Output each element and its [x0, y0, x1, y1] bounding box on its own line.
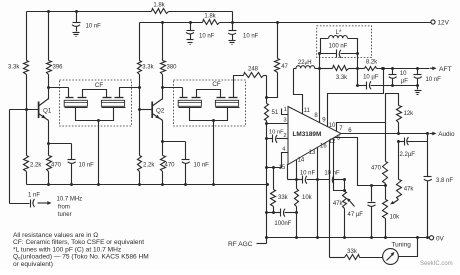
- svg-text:8.2k: 8.2k: [366, 59, 378, 65]
- wire pin1 stub: [282, 109, 289, 115]
- label 1.8k (lower): [204, 14, 216, 20]
- pin label 14: [298, 158, 305, 164]
- svg-text:or equivalent): or equivalent): [13, 261, 53, 268]
- svg-text:33k: 33k: [278, 195, 289, 201]
- capacitor 10nF pin2: [267, 135, 289, 143]
- label 3.8 nF: [436, 178, 453, 184]
- wire V1 bus: [265, 76, 268, 244]
- label Q1: [43, 107, 52, 114]
- svg-text:100nF: 100nF: [274, 221, 291, 227]
- wire RF AGC: [257, 243, 267, 245]
- svg-text:10 nF: 10 nF: [269, 129, 284, 135]
- wire pin11 riser: [294, 69, 303, 114]
- wire CF1 bottom: [76, 108, 114, 121]
- wiper arrow 47k: [347, 198, 355, 206]
- svg-text:16: 16: [320, 143, 327, 149]
- resistor 10k pin14: [295, 189, 299, 207]
- resistor 2.2k stage2 bias lower: [138, 110, 142, 187]
- label RF AGC: [228, 241, 253, 248]
- resistor 3.3k detector: [320, 66, 358, 71]
- capacitor 10nF AFT: [414, 69, 422, 95]
- svg-text:10 nF: 10 nF: [86, 24, 102, 30]
- wire CF1 input lead: [68, 88, 70, 98]
- svg-text:RF AGC: RF AGC: [228, 241, 253, 248]
- node CF1 ground: [97, 119, 100, 185]
- watermark SeekIC.com: [420, 261, 453, 267]
- wire top supply rail upper: [27, 11, 233, 13]
- potentiometer 47k: [343, 180, 347, 240]
- label 47 uF: [348, 212, 364, 218]
- resistor 8.2k: [358, 67, 430, 71]
- svg-text:10: 10: [329, 123, 336, 129]
- svg-text:0V: 0V: [436, 236, 445, 243]
- svg-text:470: 470: [165, 163, 176, 169]
- resistor 396 collector load: [47, 10, 52, 100]
- terminal 0V: [429, 236, 444, 243]
- capacitor 10nF stage1 emitter: [49, 144, 76, 185]
- wire pin3 stub: [267, 123, 289, 125]
- capacitor 10nF decoupling 2: [186, 21, 195, 45]
- svg-text:10 nF: 10 nF: [194, 163, 210, 169]
- wire input arrow 10.7 MHz: [38, 201, 52, 205]
- op-amp U1 LM3189M: [288, 107, 341, 165]
- capacitor 47uF: [368, 186, 376, 240]
- label 10 uF AFT: [400, 71, 408, 84]
- svg-text:33k: 33k: [347, 249, 358, 255]
- label 10 nF (decoupling 2): [199, 33, 215, 39]
- label 51: [272, 110, 279, 116]
- svg-text:100 nF: 100 nF: [329, 44, 348, 50]
- svg-text:LM3189M: LM3189M: [293, 131, 322, 138]
- label 470 pin6: [371, 166, 382, 172]
- wire pin9 riser: [328, 67, 386, 127]
- svg-text:µF: µF: [401, 79, 408, 85]
- svg-text:AFT: AFT: [439, 66, 452, 73]
- wire CF1 output lead: [120, 88, 140, 98]
- resistor 470 stage2 emitter: [161, 142, 166, 185]
- label 33k pin4: [278, 195, 289, 201]
- resistor R 1.8k (lower): [203, 20, 220, 25]
- capacitor 10nF decoupling 1: [72, 10, 81, 37]
- pin label 6: [348, 128, 352, 134]
- resistor 47k pin12: [397, 142, 402, 200]
- label 3.3k detector: [336, 75, 348, 81]
- svg-text:11: 11: [304, 108, 311, 114]
- svg-text:47: 47: [281, 64, 288, 70]
- svg-text:2.2k: 2.2k: [30, 163, 42, 169]
- wire Q2 emitter: [161, 121, 164, 144]
- resistor 248: [244, 73, 267, 78]
- svg-text:CF: Ceramic filters, Toko CSFE: CF: Ceramic filters, Toko CSFE or equiva…: [13, 239, 144, 246]
- label 3.3k stage1: [8, 64, 20, 70]
- label 3.3k stage2: [142, 64, 154, 70]
- label 380: [167, 64, 178, 70]
- wire pin14 riser: [295, 160, 298, 240]
- capacitor 1 nF input: [31, 199, 35, 208]
- svg-text:CF: CF: [95, 82, 103, 89]
- wire pin5 net: [335, 138, 388, 188]
- svg-text:13: 13: [309, 150, 316, 156]
- wire 12V supply rail: [140, 22, 431, 24]
- svg-text:from: from: [58, 204, 70, 210]
- svg-text:248: 248: [248, 66, 259, 72]
- wire pin15 riser: [288, 165, 289, 180]
- ceramic filter CF2 dashed box: [174, 80, 246, 126]
- label Tuning: [392, 242, 412, 249]
- wire Q2 collector node: [161, 86, 183, 89]
- label 47k pot: [333, 201, 344, 207]
- label 470 stage2: [165, 163, 176, 169]
- svg-text:All resistance values are in Ω: All resistance values are in Ω: [13, 232, 98, 239]
- label 10 nF AFT: [426, 77, 442, 83]
- label 47: [281, 64, 288, 70]
- svg-text:tuner: tuner: [58, 212, 72, 218]
- svg-text:47 µF: 47 µF: [348, 212, 364, 218]
- label 248: [248, 66, 259, 72]
- label 2.2uF: [400, 152, 416, 158]
- pin label 2: [283, 133, 286, 139]
- svg-text:47k: 47k: [404, 187, 415, 193]
- label 2.2k stage1: [30, 163, 42, 169]
- wire pin10 net: [337, 123, 386, 132]
- pin label 10: [329, 123, 336, 129]
- label 1.8k (upper): [153, 3, 165, 9]
- pin label 1: [284, 107, 287, 113]
- transistor Q1: [39, 99, 49, 121]
- resistor 33k pin4: [271, 166, 276, 214]
- pin label 16: [320, 143, 327, 149]
- label 12k: [404, 111, 415, 117]
- capacitor 10nF pin13 a: [288, 176, 330, 184]
- wire pin16 riser: [329, 141, 331, 258]
- svg-text:Audio: Audio: [438, 131, 455, 138]
- node CF2 ground: [212, 119, 215, 186]
- label 2.2k stage2: [143, 163, 155, 169]
- svg-text:3.8 nF: 3.8 nF: [436, 178, 453, 184]
- label 470 stage1: [51, 163, 62, 169]
- wire pin13 riser: [316, 148, 319, 240]
- pin label 11: [304, 108, 311, 114]
- svg-text:SeekIC.com: SeekIC.com: [420, 261, 453, 267]
- resistor 51: [265, 104, 269, 121]
- svg-text:10 nF: 10 nF: [199, 33, 215, 39]
- label 10 nF pin2: [269, 129, 284, 135]
- wire CF2 input lead: [182, 88, 184, 98]
- terminal AFT: [430, 66, 452, 73]
- label 100nF: [274, 221, 291, 227]
- resistor 2.2k stage1 bias lower: [24, 110, 29, 185]
- svg-text:51: 51: [272, 110, 279, 116]
- svg-text:470: 470: [51, 163, 62, 169]
- label 8.2k: [366, 59, 378, 65]
- resistor 33k tuning: [330, 255, 383, 260]
- svg-text:Q1: Q1: [43, 107, 52, 114]
- potentiometer 10k: [383, 186, 388, 240]
- svg-text:15: 15: [279, 165, 286, 171]
- wire input drop: [10, 110, 30, 204]
- terminal 12V: [431, 20, 450, 27]
- svg-text:3: 3: [283, 118, 286, 124]
- capacitor 10nF decoupling 3: [228, 23, 237, 45]
- pin label 12: [329, 139, 336, 145]
- svg-text:3.3k: 3.3k: [142, 64, 154, 70]
- wire tank to detector rail: [356, 54, 359, 71]
- label 10 nF (b): [324, 170, 340, 176]
- pin label 15: [279, 165, 286, 171]
- pin label 8: [314, 113, 318, 119]
- svg-text:1.8k: 1.8k: [204, 14, 216, 20]
- wire CF2 coupling: [197, 90, 221, 98]
- wire pin8 riser: [318, 52, 321, 123]
- svg-text:1 nF: 1 nF: [28, 192, 40, 198]
- wire CF2 output lead: [234, 76, 244, 98]
- svg-text:396: 396: [53, 64, 64, 70]
- wire CF2 bottom: [190, 108, 228, 121]
- inductor 22uH: [294, 66, 320, 69]
- svg-text:10: 10: [400, 71, 407, 77]
- svg-text:10 nF: 10 nF: [324, 170, 340, 176]
- filter element CF1a: [64, 98, 87, 108]
- wire pin10 to 12k: [386, 94, 399, 123]
- pin label 9: [322, 117, 326, 123]
- svg-text:1.8k: 1.8k: [153, 3, 165, 9]
- pin label 5: [337, 135, 341, 141]
- wire audio output: [342, 132, 430, 135]
- label 10k pin14: [302, 195, 313, 201]
- terminal Audio: [430, 131, 455, 138]
- svg-text:Qo(unloaded) — 75 (Toko No. KA: Qo(unloaded) — 75 (Toko No. KACS K586 HM: [13, 254, 149, 261]
- svg-text:380: 380: [167, 64, 178, 70]
- wire rail connector: [231, 12, 234, 25]
- wire stage ground rail: [27, 183, 270, 186]
- filter element CF2b: [215, 98, 239, 108]
- svg-text:1: 1: [284, 107, 287, 113]
- svg-text:3.3k: 3.3k: [336, 75, 348, 81]
- label 10 nF (a): [300, 170, 316, 176]
- label 10 nF (decoupling 1): [86, 24, 102, 30]
- wire CF1 coupling: [83, 90, 107, 98]
- ceramic filter CF1 dashed box: [60, 80, 132, 126]
- resistor 3.3k stage1 bias upper: [24, 12, 29, 112]
- svg-text:*L tunes with 100 pF (C) at 10: *L tunes with 100 pF (C) at 10.7 MHz: [13, 246, 121, 253]
- svg-text:12V: 12V: [438, 20, 450, 27]
- label 33k tuning: [347, 249, 358, 255]
- wire 0V rail: [267, 236, 430, 239]
- resistor 470 stage1 emitter: [47, 144, 52, 185]
- wire Q2 base: [140, 109, 153, 111]
- svg-text:10k: 10k: [390, 215, 401, 221]
- pin label 7: [339, 126, 343, 132]
- label 10.7 MHz from tuner: [57, 197, 83, 218]
- svg-text:Tuning: Tuning: [392, 242, 412, 249]
- svg-text:10 nF: 10 nF: [79, 163, 95, 169]
- inductor L: [321, 35, 358, 53]
- svg-text:3.3k: 3.3k: [8, 64, 20, 70]
- label 10 uF coupling: [363, 74, 379, 80]
- svg-text:47k: 47k: [333, 201, 344, 207]
- meter M tuning: [383, 249, 399, 265]
- svg-text:10 nF: 10 nF: [243, 33, 259, 39]
- label CF (filter 1): [95, 82, 103, 89]
- resistor 3.3k stage2 bias upper: [138, 23, 142, 112]
- wire pin4 stub: [267, 153, 289, 168]
- svg-text:Q2: Q2: [156, 107, 165, 114]
- note text: [13, 232, 149, 268]
- capacitor 10uF AFT: [389, 69, 397, 86]
- label 10 nF stage2 emitter: [194, 163, 210, 169]
- wire meter to 0V: [399, 238, 418, 257]
- svg-text:2.2k: 2.2k: [143, 163, 155, 169]
- pin label 4: [282, 147, 286, 153]
- pin label 13: [309, 150, 316, 156]
- label LM3189M: [293, 131, 322, 138]
- label 10 nF (decoupling 3): [243, 33, 259, 39]
- svg-text:2: 2: [283, 133, 286, 139]
- svg-text:CF: CF: [212, 81, 220, 88]
- capacitor 10nF pin13 b: [330, 176, 347, 184]
- svg-text:10 nF: 10 nF: [300, 170, 316, 176]
- label 396: [53, 64, 64, 70]
- wiper arrow 10k: [390, 200, 398, 205]
- svg-text:2.2µF: 2.2µF: [400, 152, 416, 158]
- svg-text:10 µF: 10 µF: [363, 74, 379, 80]
- label 22uH: [298, 60, 312, 66]
- resistor R 1.8k (upper): [152, 9, 169, 14]
- label Q2: [156, 107, 165, 114]
- wire Q1 emitter: [47, 121, 50, 146]
- svg-text:12k: 12k: [404, 111, 415, 117]
- filter element CF2a: [178, 98, 201, 108]
- label 10k pot: [390, 215, 401, 221]
- wire pin12 riser: [334, 139, 347, 193]
- svg-text:14: 14: [298, 158, 305, 164]
- svg-text:470: 470: [371, 166, 382, 172]
- resistor 12k: [397, 106, 402, 136]
- transistor Q2: [152, 99, 163, 121]
- svg-text:10 nF: 10 nF: [426, 77, 442, 83]
- capacitor 2.2uF: [397, 137, 428, 145]
- wire Q1 collector node: [47, 86, 69, 89]
- filter element CF1b: [101, 98, 125, 108]
- capacitor 100 nF tank: [320, 50, 360, 58]
- resistor 470 pin6: [383, 123, 388, 186]
- pin label 3: [283, 118, 286, 124]
- resistor 47 supply: [267, 21, 280, 98]
- capacitor 100nF: [267, 209, 297, 217]
- resistor 380 collector load: [161, 21, 166, 100]
- label 10 nF stage1 emitter: [79, 163, 95, 169]
- label 100 nF tank: [329, 44, 348, 50]
- svg-text:10k: 10k: [302, 195, 313, 201]
- capacitor 10uF coupling: [356, 69, 419, 90]
- capacitor 10nF stage2 emitter: [163, 142, 190, 185]
- svg-text:10.7 MHz: 10.7 MHz: [57, 197, 83, 203]
- wire Q1 base: [10, 109, 39, 111]
- tuned circuit L dashed box: [317, 26, 372, 58]
- capacitor 3.8 nF: [424, 134, 432, 240]
- label 47k pin12: [404, 187, 415, 193]
- label CF (filter 2): [212, 81, 220, 88]
- label 1 nF: [28, 192, 40, 198]
- label L*: [336, 30, 342, 36]
